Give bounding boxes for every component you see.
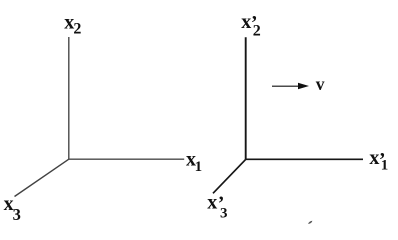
svg-text:v: v xyxy=(316,74,325,94)
svg-text:x: x xyxy=(207,192,217,214)
svg-text:x: x xyxy=(369,147,379,169)
svg-text:3: 3 xyxy=(220,206,228,222)
axis x2 (left frame vertical) xyxy=(68,37,70,159)
velocity arrow head xyxy=(298,83,309,89)
svg-text:2: 2 xyxy=(253,22,261,39)
svg-text:1: 1 xyxy=(195,159,203,175)
axis x3 (left frame diagonal) xyxy=(15,159,69,196)
svg-text:x: x xyxy=(241,11,251,33)
axis x'2 (right frame vertical) xyxy=(245,37,247,159)
axis x'3 (right frame diagonal) xyxy=(213,159,246,193)
svg-text:1: 1 xyxy=(381,158,389,174)
svg-text:3: 3 xyxy=(13,205,21,224)
axis x'1 (right frame horizontal) xyxy=(246,158,363,160)
velocity arrow shaft xyxy=(272,85,300,87)
smudge mark xyxy=(308,221,313,224)
axis x1 (left frame horizontal) xyxy=(69,158,184,160)
svg-text:2: 2 xyxy=(73,21,81,38)
